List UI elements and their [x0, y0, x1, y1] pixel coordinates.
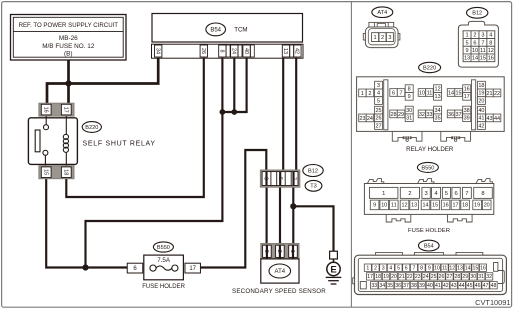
fuse holder terminal 11	[390, 200, 399, 210]
fuse holder fuse 3	[422, 187, 430, 198]
svg-text:31: 31	[406, 116, 412, 122]
svg-text:12: 12	[435, 87, 441, 93]
svg-text:5: 5	[445, 191, 448, 197]
fuse holder designator B550	[153, 242, 173, 252]
svg-text:3: 3	[382, 265, 385, 271]
B54 view pin 40	[426, 282, 433, 289]
svg-text:43: 43	[486, 116, 492, 122]
svg-text:B54: B54	[424, 244, 434, 250]
svg-text:38: 38	[411, 283, 417, 289]
svg-text:SELF SHUT RELAY: SELF SHUT RELAY	[83, 141, 156, 148]
svg-text:13: 13	[464, 56, 470, 62]
TCM pin 34	[155, 45, 162, 57]
B54 view pin 23	[414, 273, 421, 280]
svg-text:46: 46	[475, 283, 481, 289]
svg-text:29: 29	[398, 112, 404, 118]
svg-text:12: 12	[488, 48, 494, 54]
B54 view pin 17	[367, 273, 374, 280]
svg-text:33: 33	[371, 283, 377, 289]
svg-text:1: 1	[366, 265, 369, 271]
svg-text:T3: T3	[310, 184, 317, 190]
svg-text:18: 18	[62, 169, 68, 175]
svg-text:21: 21	[399, 274, 405, 280]
fuse holder mounting tab left	[386, 214, 411, 222]
TCM connector pin strip	[152, 44, 304, 58]
svg-text:29: 29	[462, 274, 468, 280]
svg-text:17: 17	[367, 274, 373, 280]
svg-text:16: 16	[42, 107, 48, 113]
svg-text:3: 3	[424, 191, 427, 197]
wire TCM pin 24 drop	[233, 58, 235, 112]
TCM unit B54	[152, 14, 303, 43]
svg-text:16: 16	[488, 56, 494, 62]
svg-text:5: 5	[377, 98, 380, 104]
relay holder pins 28-31	[390, 110, 398, 118]
junction node pins 8-40	[220, 109, 226, 115]
wire MB fuse to junction	[67, 60, 70, 84]
svg-text:39: 39	[419, 283, 425, 289]
svg-text:35: 35	[387, 283, 393, 289]
svg-text:36: 36	[395, 283, 401, 289]
fuse holder terminal 12	[400, 200, 409, 210]
svg-text:19: 19	[383, 274, 389, 280]
wire connector pin 5 to sensor pin 2	[279, 171, 281, 258]
svg-text:4: 4	[389, 265, 392, 271]
TCM pin 13	[282, 45, 289, 57]
relay holder pins 40-44	[478, 106, 486, 114]
svg-text:36: 36	[448, 112, 454, 118]
svg-text:FUSE HOLDER: FUSE HOLDER	[142, 284, 185, 290]
svg-text:2: 2	[374, 265, 377, 271]
fuse holder terminal 17	[185, 263, 201, 273]
B54 view pin 21	[398, 273, 405, 280]
power supply circuit reference box MB-26	[11, 15, 127, 61]
svg-text:8: 8	[489, 40, 492, 46]
fuse holder fuse 7	[462, 187, 471, 198]
svg-text:37: 37	[455, 112, 461, 118]
svg-text:23: 23	[359, 116, 365, 122]
svg-text:9: 9	[408, 94, 411, 100]
svg-text:38: 38	[464, 108, 470, 114]
svg-text:6: 6	[263, 177, 269, 180]
relay holder B220 designator	[419, 62, 441, 72]
relay holder mounting tab right	[441, 131, 471, 141]
relay designator B220	[82, 122, 101, 133]
fuse holder terminal 16	[441, 200, 450, 210]
svg-text:30: 30	[406, 108, 412, 114]
svg-text:3: 3	[481, 33, 484, 39]
svg-text:48: 48	[491, 283, 497, 289]
fuse holder fuse 1	[370, 187, 398, 198]
fuse holder terminal 18	[461, 200, 470, 210]
svg-text:15: 15	[432, 203, 438, 209]
svg-text:27: 27	[375, 123, 381, 129]
wire junction to relay pin 17	[67, 84, 70, 104]
svg-text:7: 7	[412, 265, 415, 271]
junction node ground branch	[290, 203, 296, 209]
svg-text:15: 15	[455, 90, 461, 96]
svg-text:34: 34	[435, 108, 441, 114]
svg-text:7: 7	[481, 40, 484, 46]
wire junction to relay pin 16	[47, 84, 69, 104]
B54 view pin 6	[403, 264, 410, 271]
relay holder pins 10-13	[418, 89, 426, 97]
relay holder pins 32-35	[418, 110, 426, 118]
svg-text:11: 11	[480, 48, 486, 54]
wire TCM pin 40 drop and crossbar	[222, 58, 246, 112]
inline connector B12/T3	[260, 170, 299, 187]
svg-text:17: 17	[453, 203, 459, 209]
svg-text:20: 20	[391, 274, 397, 280]
svg-text:M/B FUSE NO. 12: M/B FUSE NO. 12	[42, 43, 95, 50]
svg-text:16: 16	[480, 265, 486, 271]
B54 view pin 44	[458, 282, 465, 289]
svg-text:16: 16	[443, 203, 449, 209]
svg-text:AT4: AT4	[377, 10, 387, 16]
B54 view pin 24	[422, 273, 429, 280]
svg-text:32: 32	[486, 274, 492, 280]
svg-text:1: 1	[289, 250, 295, 253]
svg-text:6: 6	[473, 40, 476, 46]
svg-text:27: 27	[447, 274, 453, 280]
svg-text:11: 11	[427, 90, 433, 96]
svg-text:39: 39	[464, 116, 470, 122]
svg-text:13: 13	[411, 203, 417, 209]
svg-text:44: 44	[494, 116, 500, 122]
junction node power	[65, 80, 71, 86]
B54 view pin 14	[464, 264, 471, 271]
TCM pin 42	[294, 45, 301, 57]
B54 view pin 36	[394, 282, 401, 289]
wire TCM pin 42 to connector pin 7	[295, 58, 297, 172]
svg-text:CVT10091: CVT10091	[475, 298, 510, 307]
B54 view pin 10	[433, 264, 440, 271]
fuse holder fuse 2	[400, 187, 419, 198]
B54 view pin 37	[402, 282, 409, 289]
fuse holder terminal 13	[410, 200, 419, 210]
svg-text:17: 17	[62, 107, 68, 113]
B54 view pin 25	[430, 273, 437, 280]
fuse holder B550 designator	[417, 162, 438, 172]
svg-text:34: 34	[379, 283, 385, 289]
wire TCM pin 26 to relay pin 18	[66, 58, 204, 197]
svg-text:24: 24	[230, 48, 236, 54]
svg-text:44: 44	[459, 283, 465, 289]
svg-text:42: 42	[294, 48, 300, 54]
svg-text:(B): (B)	[64, 51, 73, 58]
wire fuse terminal 17 to connector B12 pin 6	[201, 150, 267, 268]
fuse F7.5A body	[144, 255, 184, 280]
svg-text:41: 41	[435, 283, 441, 289]
svg-text:TCM: TCM	[234, 27, 247, 34]
B54 view pin 2	[372, 264, 379, 271]
B54 view pin 33	[371, 282, 378, 289]
svg-text:9: 9	[373, 203, 376, 209]
TCM pin 8	[219, 45, 226, 57]
svg-text:2: 2	[381, 35, 384, 41]
svg-text:9: 9	[428, 265, 431, 271]
connector view B12 shell	[458, 21, 498, 67]
B54 view pin 39	[418, 282, 425, 289]
B54 view pin 12	[449, 264, 456, 271]
TCM pin 26	[200, 45, 207, 57]
svg-text:35: 35	[435, 116, 441, 122]
B54 view pin 28	[454, 273, 461, 280]
connector view B54 shell	[376, 252, 403, 255]
svg-text:11: 11	[391, 203, 397, 209]
svg-text:34: 34	[154, 48, 160, 54]
fuse holder top clip right	[476, 179, 492, 185]
TCM pin 40	[243, 45, 250, 57]
svg-text:24: 24	[423, 274, 429, 280]
svg-text:13: 13	[282, 48, 288, 54]
svg-text:2: 2	[368, 91, 371, 97]
B54 view pin 42	[442, 282, 449, 289]
B54 view pin 29	[462, 273, 469, 280]
svg-text:3: 3	[388, 35, 391, 41]
svg-text:RELAY HOLDER: RELAY HOLDER	[406, 146, 454, 153]
svg-text:2: 2	[473, 33, 476, 39]
svg-text:MB-26: MB-26	[59, 35, 78, 42]
svg-text:15: 15	[42, 169, 48, 175]
wire branch to ground E	[293, 206, 333, 251]
fuse holder mounting tab right	[448, 214, 473, 222]
wire junction to TCM pin 34	[69, 58, 159, 84]
svg-text:42: 42	[478, 123, 484, 129]
B54 view pin 9	[426, 264, 433, 271]
fuse holder fuse 6	[452, 187, 460, 198]
connector designator T3	[305, 180, 322, 191]
B54 shell left key notch	[353, 278, 355, 284]
B12 view pin grid	[463, 31, 495, 62]
svg-text:18: 18	[478, 83, 484, 89]
B54 view pin 1	[364, 264, 371, 271]
B54 view pin 20	[390, 273, 397, 280]
secondary speed sensor A:T4 body	[261, 259, 299, 283]
svg-text:7: 7	[291, 177, 297, 180]
fuse holder fuse 5	[442, 187, 450, 198]
svg-text:18: 18	[375, 274, 381, 280]
svg-text:B550: B550	[157, 245, 170, 251]
panel divider line	[350, 2, 352, 307]
fuse holder top clip left	[367, 179, 383, 185]
svg-text:7: 7	[400, 90, 403, 96]
svg-text:11: 11	[442, 265, 447, 271]
relay coil	[65, 116, 67, 134]
svg-text:8: 8	[408, 87, 411, 93]
svg-text:AT4: AT4	[275, 269, 286, 275]
connector view B12 designator	[467, 7, 488, 18]
svg-text:B550: B550	[421, 165, 434, 171]
B54 view pin 46	[474, 282, 481, 289]
svg-text:12: 12	[402, 203, 408, 209]
svg-text:17: 17	[464, 94, 470, 100]
B54 view pin 3	[380, 264, 387, 271]
svg-text:FUSE HOLDER: FUSE HOLDER	[408, 228, 450, 234]
B54 view pin 16	[480, 264, 487, 271]
fuse holder terminal 15	[431, 200, 440, 210]
svg-text:31: 31	[478, 274, 484, 280]
B54 view pin 18	[374, 273, 381, 280]
svg-text:14: 14	[423, 203, 429, 209]
svg-text:13: 13	[435, 94, 441, 100]
svg-text:28: 28	[390, 112, 396, 118]
wire connector pin 7 to sensor pin 1	[292, 171, 294, 258]
B54 view pin 13	[456, 264, 463, 271]
svg-text:19: 19	[478, 91, 484, 97]
svg-text:B220: B220	[85, 125, 98, 131]
svg-text:3: 3	[377, 83, 380, 89]
relay top connector block pins 16 17	[39, 103, 74, 116]
junction node fuse feed	[82, 264, 88, 270]
svg-text:4: 4	[489, 33, 492, 39]
svg-text:6: 6	[454, 191, 457, 197]
svg-text:22: 22	[494, 91, 500, 97]
svg-text:B12: B12	[308, 168, 318, 174]
B54 view pin 27	[446, 273, 453, 280]
wire connector pin 6 to sensor pin 3	[266, 171, 268, 258]
connector view B54 designator	[419, 240, 440, 251]
svg-text:14: 14	[465, 265, 471, 271]
fuse holder terminal 19	[473, 200, 482, 210]
svg-text:14: 14	[472, 56, 478, 62]
relay contact	[45, 116, 47, 125]
TCM pin 24	[231, 45, 238, 57]
relay bottom connector block pins 15 18	[39, 166, 74, 179]
wire relay pin 15 to fuse holder terminal 6	[46, 178, 127, 267]
svg-text:33: 33	[426, 112, 432, 118]
svg-text:10: 10	[381, 203, 387, 209]
svg-text:18: 18	[462, 203, 468, 209]
B54 view pin 19	[382, 273, 389, 280]
fuse holder terminal 14	[421, 200, 430, 210]
svg-text:47: 47	[483, 283, 489, 289]
svg-text:22: 22	[407, 274, 413, 280]
svg-text:E: E	[330, 264, 336, 275]
connector designator B12	[303, 165, 323, 177]
B54 view pin 34	[379, 282, 386, 289]
svg-text:6: 6	[392, 90, 395, 96]
relay holder pins 23-27	[359, 114, 367, 122]
svg-text:7.5A: 7.5A	[157, 257, 171, 264]
svg-text:15: 15	[472, 265, 478, 271]
svg-text:2: 2	[408, 191, 411, 197]
svg-text:1: 1	[361, 91, 364, 97]
fuse holder fuse 4	[432, 187, 441, 198]
fuse holder terminal 20	[482, 200, 491, 210]
connector view A:T4 designator	[372, 7, 393, 18]
junction node pins 24-40	[231, 109, 237, 115]
relay holder pins 18-22	[478, 81, 486, 89]
svg-text:10: 10	[434, 265, 440, 271]
svg-text:25: 25	[375, 108, 381, 114]
B54 view pin 38	[410, 282, 417, 289]
svg-text:4: 4	[377, 91, 380, 97]
self shut relay B220 body	[28, 118, 77, 165]
svg-text:1: 1	[382, 191, 385, 197]
relay holder pins 1-5	[359, 89, 367, 97]
fuse holder terminal 17	[451, 200, 460, 210]
B54 view pin 41	[434, 282, 441, 289]
svg-text:8: 8	[420, 265, 423, 271]
svg-text:6: 6	[405, 265, 408, 271]
svg-text:45: 45	[467, 283, 473, 289]
svg-text:37: 37	[403, 283, 409, 289]
B54 view pin 15	[472, 264, 479, 271]
relay holder pins 36-39	[447, 110, 455, 118]
svg-text:12: 12	[449, 265, 455, 271]
B54 view pin 26	[438, 273, 445, 280]
ground terminal E	[330, 251, 338, 259]
svg-text:3: 3	[263, 250, 269, 253]
svg-text:2: 2	[276, 250, 282, 253]
svg-text:32: 32	[419, 112, 425, 118]
wire through connector cells	[267, 172, 294, 185]
svg-text:7: 7	[465, 191, 468, 197]
svg-text:5: 5	[465, 40, 468, 46]
B54 view pin 47	[482, 282, 489, 289]
fuse holder fuse 8	[474, 187, 493, 198]
wire TCM pin 13 to connector pin 5	[282, 58, 284, 172]
svg-text:B220: B220	[423, 65, 436, 71]
relay holder body	[357, 77, 505, 132]
relay holder pins 14-17	[447, 89, 455, 97]
wire through sensor connector cells	[267, 245, 293, 258]
svg-text:30: 30	[470, 274, 476, 280]
svg-text:14: 14	[448, 90, 454, 96]
svg-text:40: 40	[478, 108, 484, 114]
svg-text:8: 8	[481, 191, 484, 197]
svg-text:26: 26	[200, 48, 206, 54]
svg-text:26: 26	[439, 274, 445, 280]
svg-text:REF. TO POWER SUPPLY CIRCUIT: REF. TO POWER SUPPLY CIRCUIT	[19, 22, 119, 29]
svg-text:8: 8	[219, 50, 225, 53]
B54 view pin 8	[418, 264, 425, 271]
secondary speed sensor connector pins 3 2 1	[261, 244, 299, 260]
fuse holder terminal 9	[370, 200, 379, 210]
B54 view pin 4	[387, 264, 394, 271]
svg-text:17: 17	[189, 266, 196, 272]
svg-text:23: 23	[415, 274, 421, 280]
svg-text:40: 40	[243, 48, 249, 54]
svg-text:B12: B12	[472, 11, 482, 17]
relay holder pins 6-9	[390, 89, 398, 97]
wire TCM pin 8 down to fuse line	[86, 58, 223, 268]
svg-text:24: 24	[367, 116, 373, 122]
svg-text:1: 1	[374, 35, 377, 41]
B54 view pin 31	[478, 273, 485, 280]
svg-text:B54: B54	[210, 27, 221, 33]
fuse holder terminal 6	[127, 263, 143, 273]
svg-text:41: 41	[478, 116, 484, 122]
B54 view pin 5	[395, 264, 402, 271]
B54 view pin 30	[470, 273, 477, 280]
B54 view pin 7	[410, 264, 417, 271]
svg-text:40: 40	[427, 283, 433, 289]
svg-text:25: 25	[431, 274, 437, 280]
svg-text:1: 1	[465, 33, 468, 39]
svg-text:19: 19	[474, 203, 480, 209]
svg-text:5: 5	[277, 177, 283, 180]
fuse holder top clip center	[418, 179, 434, 185]
svg-text:9: 9	[465, 48, 468, 54]
svg-text:26: 26	[375, 116, 381, 122]
B54 view pin 22	[406, 273, 413, 280]
svg-text:28: 28	[455, 274, 461, 280]
connector view A:T4 body	[369, 22, 394, 27]
B54 view pin 48	[490, 282, 497, 289]
fuse holder terminal 10	[380, 200, 389, 210]
